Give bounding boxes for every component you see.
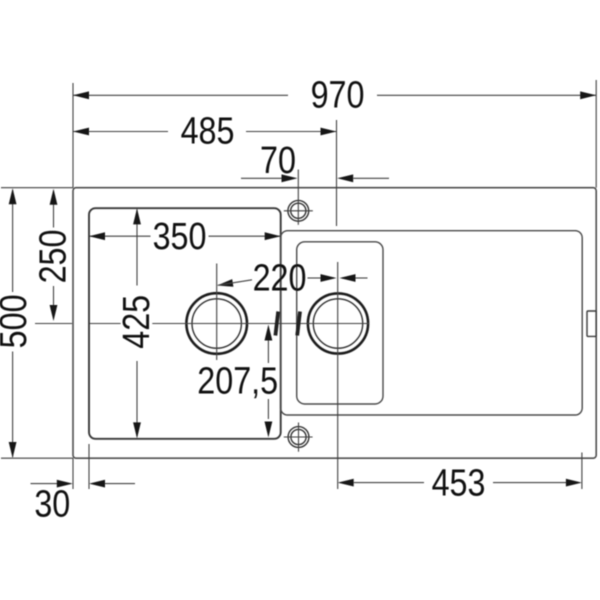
dimension 30 line <box>31 483 58 485</box>
svg-text:485: 485 <box>181 110 235 152</box>
small drain vertical centre line <box>337 262 339 489</box>
extension line 485 right <box>336 120 338 226</box>
extension line 453 right <box>581 453 583 490</box>
main drain inner circle <box>192 299 241 348</box>
drainer board <box>281 231 583 415</box>
overflow notch <box>587 311 596 336</box>
divider tick right <box>297 312 300 336</box>
extension line bottom left <box>1 457 73 459</box>
divider tick left <box>275 312 278 336</box>
svg-text:350: 350 <box>153 215 207 257</box>
main drain outer circle <box>186 293 247 354</box>
extension line 30 right <box>88 444 90 489</box>
dimension 70 line <box>241 177 282 179</box>
svg-text:70: 70 <box>260 140 296 182</box>
svg-text:220: 220 <box>253 257 307 299</box>
dimension 207,5 line <box>265 325 273 341</box>
main drain vertical centre line <box>216 264 218 361</box>
dimension 250 line <box>53 191 55 228</box>
sink outer edge <box>73 188 596 459</box>
svg-text:250: 250 <box>32 230 74 284</box>
svg-text:207,5: 207,5 <box>197 360 278 402</box>
small drain outer circle <box>308 293 368 353</box>
tap hole top <box>288 200 309 221</box>
dimension 350 line <box>89 235 151 237</box>
extension line 30 left <box>72 458 74 489</box>
svg-text:425: 425 <box>115 295 157 349</box>
dimension 453 line <box>338 479 354 487</box>
small drain inner circle <box>313 299 362 348</box>
extension line right top <box>595 80 597 188</box>
svg-text:970: 970 <box>311 74 365 116</box>
svg-text:453: 453 <box>432 462 486 504</box>
extension line top left run <box>1 187 73 189</box>
extension line left top <box>72 83 74 188</box>
small bowl <box>297 242 383 404</box>
svg-text:500: 500 <box>0 294 35 348</box>
main bowl <box>89 208 281 439</box>
dimension 485 line <box>73 131 168 133</box>
dimension 970 line <box>73 94 288 96</box>
svg-text:30: 30 <box>34 483 70 525</box>
bowls horizontal centre line <box>35 323 72 325</box>
dimension 220 leader arrow <box>217 279 233 287</box>
tap hole bottom <box>288 427 309 448</box>
dimension 425 line <box>136 210 138 286</box>
dimension 500 line <box>12 190 14 292</box>
dimension 220 right arrows <box>308 277 322 279</box>
